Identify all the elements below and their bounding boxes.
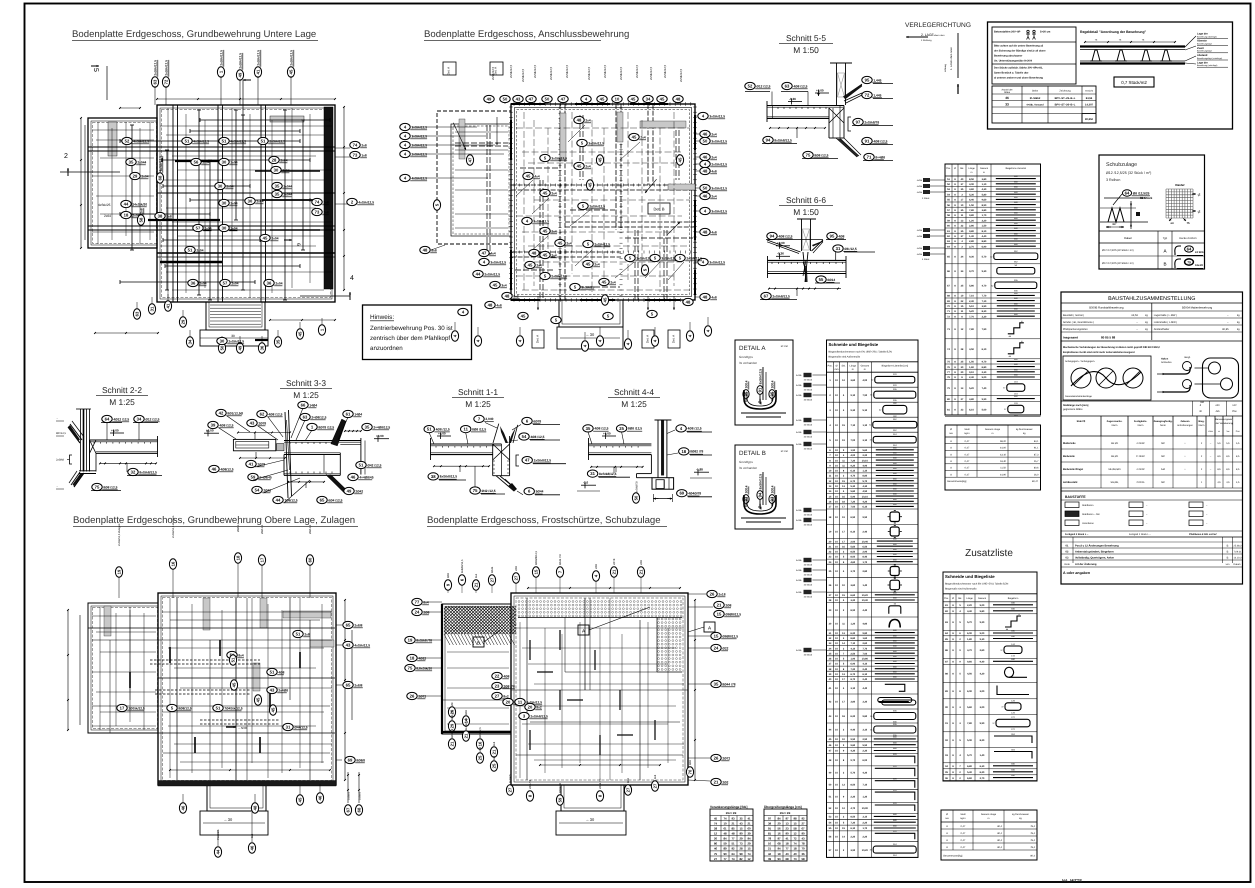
plan2 extra interior detail xyxy=(523,112,525,292)
svg-text:35: 35 xyxy=(365,425,370,430)
svg-text:8xStk/12,5: 8xStk/12,5 xyxy=(758,474,762,490)
svg-text:6,00: 6,00 xyxy=(862,759,867,762)
svg-text:7,10: 7,10 xyxy=(850,642,855,645)
svg-text:3x vorhanden: 3x vorhanden xyxy=(739,361,758,365)
svg-text:≥4: ≥4 xyxy=(1170,221,1174,225)
svg-text:4,50: 4,50 xyxy=(969,348,974,351)
svg-text:Datum: Datum xyxy=(1234,563,1241,566)
svg-text:94: 94 xyxy=(747,837,751,841)
svg-text:30: 30 xyxy=(248,199,253,204)
svg-text:1,445: 1,445 xyxy=(873,93,881,97)
svg-text:15: 15 xyxy=(747,847,751,851)
svg-text:4x8: 4x8 xyxy=(496,303,502,307)
svg-text:9,60: 9,60 xyxy=(967,661,972,664)
plan4 region divider lines xyxy=(518,617,682,619)
svg-text:5,70: 5,70 xyxy=(967,754,972,757)
svg-text:63: 63 xyxy=(303,415,308,420)
svg-text:2xStk/12,5: 2xStk/12,5 xyxy=(238,53,242,69)
svg-text:Bieg-: Bieg- xyxy=(1199,420,1205,423)
svg-text:3,80: 3,80 xyxy=(850,701,855,704)
svg-text:44: 44 xyxy=(216,849,221,854)
svg-text:21: 21 xyxy=(612,569,617,574)
svg-text:8xStk/5: 8xStk/5 xyxy=(509,774,512,783)
svg-text:Stk.: Stk. xyxy=(841,364,845,367)
svg-text:Länge: Länge xyxy=(849,364,856,367)
svg-text:29: 29 xyxy=(747,842,751,846)
svg-text:94: 94 xyxy=(758,492,763,497)
svg-text:Ø: Ø xyxy=(954,167,956,170)
svg-text:45: 45 xyxy=(271,707,276,712)
svg-text:8Ø8 /12,5: 8Ø8 /12,5 xyxy=(628,427,642,431)
svg-text:41: 41 xyxy=(785,837,789,841)
svg-text:Übergreifungslänge [cm]: Übergreifungslänge [cm] xyxy=(764,805,802,809)
svg-text:10 Stück: 10 Stück xyxy=(804,399,813,402)
svg-text:27: 27 xyxy=(508,787,513,792)
schnitt55 bubble 97 bracket xyxy=(853,118,880,125)
schnitt33 deep block below xyxy=(283,455,285,476)
plan3 left wing outline xyxy=(88,603,158,733)
svg-text:15: 15 xyxy=(717,612,722,617)
svg-text:2,30: 2,30 xyxy=(969,300,974,303)
svg-text:6,20: 6,20 xyxy=(850,632,855,635)
svg-text:2x8: 2x8 xyxy=(304,632,310,636)
svg-text:8Ø84/78: 8Ø84/78 xyxy=(559,782,562,793)
svg-text:Stahl ①: Stahl ① xyxy=(1077,420,1087,423)
svg-text:3,30: 3,30 xyxy=(982,315,987,318)
svg-text:2×4Ø8/12,5: 2×4Ø8/12,5 xyxy=(373,425,390,429)
svg-text:74: 74 xyxy=(747,852,751,856)
plan1 interior wall horizontal D xyxy=(157,252,335,254)
svg-text:21: 21 xyxy=(492,749,497,754)
svg-text:48: 48 xyxy=(686,300,691,305)
svg-text:46: 46 xyxy=(1005,96,1009,100)
svg-text:65: 65 xyxy=(346,683,351,688)
svg-text:Grundtyps: Grundtyps xyxy=(739,460,753,464)
svg-text:7,40: 7,40 xyxy=(982,387,987,390)
svg-text:25: 25 xyxy=(492,763,497,768)
svg-text:44: 44 xyxy=(124,202,129,207)
svg-text:4xStk/12,5: 4xStk/12,5 xyxy=(193,139,209,143)
schnitt55 bubble 71 xyxy=(864,153,885,160)
plan2 Det.B box xyxy=(648,203,670,214)
schnitt55 column above slab xyxy=(830,62,852,64)
detail B drawing xyxy=(743,485,749,503)
svg-text:Schnitt 6-6: Schnitt 6-6 xyxy=(786,195,826,205)
svg-text:25,7: 25,7 xyxy=(1034,460,1039,463)
svg-text:45: 45 xyxy=(603,297,608,302)
svg-text:4xStk/12,5: 4xStk/12,5 xyxy=(358,200,374,204)
svg-text:Stahlbeton – b/8: Stahlbeton – b/8 xyxy=(1082,513,1100,516)
detail A drawing xyxy=(743,380,749,398)
svg-text:m: m xyxy=(992,432,994,435)
svg-text:2x04: 2x04 xyxy=(231,281,238,285)
svg-text:4Ø8 /12,5: 4Ø8 /12,5 xyxy=(594,427,608,431)
svg-text:46: 46 xyxy=(714,847,718,851)
svg-text:DETAIL A: DETAIL A xyxy=(739,345,766,352)
plan3 short stubs xyxy=(169,647,171,663)
plan2 top bubble row xyxy=(484,95,494,102)
svg-text:18: 18 xyxy=(785,842,789,846)
svg-text:60: 60 xyxy=(747,827,751,831)
svg-text:M 1:50: M 1:50 xyxy=(781,345,789,348)
svg-text:10 Stück: 10 Stück xyxy=(804,564,813,567)
svg-text:8Ø8: 8Ø8 xyxy=(689,760,692,765)
svg-text:29: 29 xyxy=(133,174,138,179)
svg-text:1,50: 1,50 xyxy=(969,361,974,364)
svg-text:2. LAGE: 2. LAGE xyxy=(921,33,935,37)
svg-text:43: 43 xyxy=(801,837,805,841)
plan2 bottom protrusion xyxy=(559,300,623,327)
svg-text:80,6: 80,6 xyxy=(1034,467,1039,470)
svg-text:0,47: 0,47 xyxy=(965,440,970,443)
svg-text:⊄: ⊄ xyxy=(1197,192,1200,197)
svg-text:9,30: 9,30 xyxy=(982,270,987,273)
svg-text:Biegf.: Biegf. xyxy=(1185,356,1191,359)
svg-text:51: 51 xyxy=(216,706,221,711)
svg-text:24: 24 xyxy=(714,646,719,651)
svg-text:80,4: 80,4 xyxy=(997,832,1002,835)
plan2 bottom rotated labels xyxy=(451,331,458,341)
svg-text:2,30: 2,30 xyxy=(850,795,855,798)
svg-text:2xStk/5: 2xStk/5 xyxy=(348,791,351,800)
svg-text:0,47: 0,47 xyxy=(965,473,970,476)
svg-text:82: 82 xyxy=(739,857,743,861)
svg-text:2x4: 2x4 xyxy=(594,262,600,266)
svg-text:0,7 Stück/m2: 0,7 Stück/m2 xyxy=(1121,80,1147,85)
svg-text:B: B xyxy=(1227,544,1229,547)
plan1 dimension line left inner xyxy=(84,125,86,240)
svg-text:Ø12 /12,5/25 (32 Stück / m²): Ø12 /12,5/25 (32 Stück / m²) xyxy=(1102,262,1134,265)
svg-text:C 2b/4P: C 2b/4P xyxy=(1136,455,1145,458)
svg-text:2,20: 2,20 xyxy=(862,836,867,839)
svg-text:Ände: Ände xyxy=(1064,563,1070,566)
svg-text:27: 27 xyxy=(495,694,500,699)
svg-text:±0,00: ±0,00 xyxy=(206,429,214,433)
svg-text:73: 73 xyxy=(793,857,797,861)
plan2 wall double lines with anchor ticks xyxy=(559,104,561,300)
svg-text:8x4: 8x4 xyxy=(475,573,478,578)
svg-text:≥12: ≥12 xyxy=(1232,404,1237,407)
plan2 left bubble column xyxy=(400,123,427,130)
svg-text:≥w: ≥w xyxy=(1227,430,1230,433)
plan1 interior wall vertical B xyxy=(217,105,219,302)
svg-text:Zentrierbewehrung Pos. 30 ist: Zentrierbewehrung Pos. 30 ist xyxy=(370,325,453,332)
svg-text:4 2b/4P: 4 2b/4P xyxy=(1136,442,1145,445)
svg-text:50: 50 xyxy=(703,186,708,191)
svg-text:51: 51 xyxy=(185,139,190,144)
svg-text:4,70: 4,70 xyxy=(982,285,987,288)
svg-text:65: 65 xyxy=(320,498,325,503)
schnitt11 right column box xyxy=(492,444,494,476)
svg-text:20: 20 xyxy=(506,700,511,705)
svg-text:2,40: 2,40 xyxy=(862,531,867,534)
svg-text:4xStk: 4xStk xyxy=(796,569,802,572)
svg-text:8,00: 8,00 xyxy=(850,556,855,559)
svg-text:7,70: 7,70 xyxy=(982,295,987,298)
svg-text:2xStk/12,5: 2xStk/12,5 xyxy=(635,64,639,78)
plan4 crosshatch lower strip xyxy=(444,634,515,645)
schnitt22 bottom-left hatch xyxy=(71,472,80,485)
svg-text:2x4: 2x4 xyxy=(610,280,616,284)
schnitt33 left vertical hatch bars xyxy=(285,412,288,498)
svg-text:45: 45 xyxy=(521,314,526,319)
svg-text:8xStk8/78: 8xStk8/78 xyxy=(636,481,639,493)
svg-text:45: 45 xyxy=(632,135,637,140)
svg-text:60: 60 xyxy=(308,557,313,562)
svg-text:51: 51 xyxy=(270,670,275,675)
svg-text:Pos.8 u 12 Änderungen Bewehrun: Pos.8 u 12 Änderungen Bewehrung xyxy=(1075,543,1119,547)
svg-text:Zweit: Zweit xyxy=(1197,47,1204,50)
plan2 inner rotated bubbles xyxy=(466,155,473,165)
svg-text:Bodenplatte Erdgeschoss, Frost: Bodenplatte Erdgeschoss, Frostschürtze, … xyxy=(427,515,661,526)
svg-text:3,60: 3,60 xyxy=(969,188,974,191)
plan4 mid-left bubbles xyxy=(492,672,510,679)
svg-text:2x04: 2x04 xyxy=(204,226,211,230)
svg-text:8x8Ø8/12,5: 8x8Ø8/12,5 xyxy=(461,559,464,573)
svg-text:1,90: 1,90 xyxy=(850,449,855,452)
svg-text:74: 74 xyxy=(793,842,797,846)
svg-text:8,50: 8,50 xyxy=(850,551,855,554)
plan1 gray strip left wing xyxy=(108,122,117,156)
svg-text:4,40: 4,40 xyxy=(982,235,987,238)
svg-text:6,60: 6,60 xyxy=(850,594,855,597)
svg-text:2x4: 2x4 xyxy=(711,132,717,136)
svg-text:4Ø8 /12,5: 4Ø8 /12,5 xyxy=(268,412,282,416)
svg-text:Bitte achten auf die untere Be: Bitte achten auf die untere Bewehrung a2 xyxy=(994,45,1044,48)
svg-text:8x4: 8x4 xyxy=(251,833,254,838)
svg-text:51: 51 xyxy=(231,657,236,662)
plan4 right bubble column xyxy=(707,590,726,597)
svg-text:68: 68 xyxy=(357,807,362,812)
svg-text:72: 72 xyxy=(164,79,169,84)
svg-text:6,10: 6,10 xyxy=(969,408,974,411)
svg-text:Ø12 / Ø8: Ø12 / Ø8 xyxy=(780,812,791,815)
schnitt22 left bracket xyxy=(70,455,73,464)
svg-text:5,90: 5,90 xyxy=(980,722,985,725)
svg-text:26: 26 xyxy=(410,694,415,699)
svg-text:7,10: 7,10 xyxy=(969,295,974,298)
svg-text:2Ø72: 2Ø72 xyxy=(418,694,426,698)
svg-text:52: 52 xyxy=(748,84,753,89)
svg-text:2Ø8: 2Ø8 xyxy=(515,566,518,571)
plan1 thick black wall bar right xyxy=(324,107,333,289)
svg-text:Ø8Ø8/12,5: Ø8Ø8/12,5 xyxy=(725,612,741,616)
svg-text:34: 34 xyxy=(646,97,651,102)
plan3 right bottom dim pair xyxy=(347,772,349,803)
svg-text:80,4: 80,4 xyxy=(997,825,1002,828)
svg-text:2x4: 2x4 xyxy=(566,241,572,245)
svg-text:24 St/12: 24 St/12 xyxy=(1195,251,1205,254)
svg-text:10,20: 10,20 xyxy=(862,849,869,852)
svg-text:5,10: 5,10 xyxy=(969,305,974,308)
svg-text:16: 16 xyxy=(777,832,781,836)
svg-text:3 Richtung: 3 Richtung xyxy=(921,39,932,42)
svg-text:1,40: 1,40 xyxy=(980,754,985,757)
svg-text:7.09.21: 7.09.21 xyxy=(1234,550,1243,553)
svg-text:Lage der: Lage der xyxy=(1197,33,1208,36)
svg-text:8Ø8: 8Ø8 xyxy=(465,710,468,715)
svg-text:6,10: 6,10 xyxy=(862,506,867,509)
plan1 right outside bubbles xyxy=(312,198,329,205)
svg-text:8x2: 8x2 xyxy=(513,294,519,298)
plan4 bottom right corner bubble xyxy=(711,778,729,785)
svg-text:48: 48 xyxy=(423,248,428,253)
svg-text:0,47: 0,47 xyxy=(961,832,966,835)
svg-text:8Ø8 /78: 8Ø8 /78 xyxy=(451,728,454,738)
svg-text:kg/m: kg/m xyxy=(961,817,966,820)
svg-text:31: 31 xyxy=(150,306,155,311)
svg-text:10,10: 10,10 xyxy=(862,495,869,498)
svg-text:3x vorhanden: 3x vorhanden xyxy=(739,466,758,470)
svg-text:7,90: 7,90 xyxy=(862,394,867,397)
svg-text:M 1:25: M 1:25 xyxy=(293,390,319,400)
plan1 dimension line right xyxy=(343,107,345,290)
svg-text:48: 48 xyxy=(703,230,708,235)
svg-text:20: 20 xyxy=(528,705,533,710)
svg-text:oben ruten: oben ruten xyxy=(934,34,945,37)
middle table left callouts xyxy=(923,178,930,182)
svg-text:7,10: 7,10 xyxy=(982,300,987,303)
svg-text:Verankerungslänge [Stk]: Verankerungslänge [Stk] xyxy=(710,805,747,809)
svg-text:8Ø8: 8Ø8 xyxy=(447,573,450,578)
svg-text:8xStk/12,5: 8xStk/12,5 xyxy=(465,717,468,730)
svg-text:Norm: Norm xyxy=(1112,424,1118,427)
plan4 bottom-left bubble cluster xyxy=(448,707,455,717)
schnitt11 upper-right dark wedges xyxy=(500,426,508,443)
svg-text:6,20: 6,20 xyxy=(980,771,985,774)
svg-text:4x4: 4x4 xyxy=(534,174,540,178)
svg-text:9,90: 9,90 xyxy=(982,398,987,401)
svg-text:14.10.21: 14.10.21 xyxy=(1234,556,1244,559)
svg-text:5,00: 5,00 xyxy=(967,739,972,742)
svg-text:3xStk/12,5: 3xStk/12,5 xyxy=(490,260,506,264)
svg-text:2x8/8: 2x8/8 xyxy=(354,623,362,627)
svg-text:Bewehrung abschauner: Bewehrung abschauner xyxy=(994,55,1022,58)
plan2 Det.A boxes bottom xyxy=(532,330,544,348)
svg-text:41: 41 xyxy=(249,462,254,467)
svg-text:3,60: 3,60 xyxy=(850,379,855,382)
svg-text:Zulassn: Zulassn xyxy=(1180,420,1190,423)
svg-text:2xStk/12,5: 2xStk/12,5 xyxy=(603,64,607,78)
svg-text:7,80: 7,80 xyxy=(969,209,974,212)
svg-text:6,90: 6,90 xyxy=(982,245,987,248)
plan2 interior rebar stubs xyxy=(486,125,488,255)
svg-text:10: 10 xyxy=(615,97,620,102)
svg-text:...: ... xyxy=(56,485,58,488)
svg-text:8,50: 8,50 xyxy=(850,783,855,786)
svg-text:Ø8 /12,5/25: Ø8 /12,5/25 xyxy=(1133,191,1150,195)
svg-text:3xStk/12,5: 3xStk/12,5 xyxy=(711,139,727,143)
svg-text:46: 46 xyxy=(181,805,186,810)
svg-text:28: 28 xyxy=(714,827,718,831)
baustahl revision table xyxy=(1061,536,1243,538)
svg-text:30: 30 xyxy=(218,184,223,189)
svg-text:51: 51 xyxy=(427,427,432,432)
svg-text:5,20: 5,20 xyxy=(969,387,974,390)
svg-text:3xStk/12,5: 3xStk/12,5 xyxy=(711,186,727,190)
svg-text:Norm: Norm xyxy=(1199,424,1205,427)
svg-text:3xStk/12,5: 3xStk/12,5 xyxy=(551,156,567,160)
svg-text:7,70: 7,70 xyxy=(969,315,974,318)
svg-text:25: 25 xyxy=(478,755,483,760)
svg-text:10,40: 10,40 xyxy=(862,540,869,543)
svg-text:4,40: 4,40 xyxy=(862,609,867,612)
svg-text:4xb: 4xb xyxy=(1215,410,1220,413)
svg-text:2x04: 2x04 xyxy=(280,158,287,162)
svg-text:M 1:50: M 1:50 xyxy=(781,450,789,453)
svg-text:8x2: 8x2 xyxy=(536,705,542,709)
svg-text:Bewehrungslage (unterlage): Bewehrungslage (unterlage) xyxy=(1197,57,1222,60)
svg-text:77: 77 xyxy=(785,847,789,851)
svg-text:4xStk: 4xStk xyxy=(796,394,802,397)
svg-text:4xStk: 4xStk xyxy=(796,591,802,594)
svg-text:mm: mm xyxy=(949,432,953,435)
svg-text:Ø42 /12,5: Ø42 /12,5 xyxy=(482,489,496,493)
svg-text:+0,00: +0,00 xyxy=(603,431,611,435)
plan3 bottom rotated bubbles2 xyxy=(214,847,221,857)
svg-text:der Sicherung der Bündige sind: der Sicherung der Bündige sind je all ob… xyxy=(994,50,1046,53)
svg-text:3xStk/12,5: 3xStk/12,5 xyxy=(588,141,604,145)
svg-text:8,90: 8,90 xyxy=(982,204,987,207)
svg-text:63: 63 xyxy=(785,84,790,89)
svg-text:9,40: 9,40 xyxy=(980,661,985,664)
svg-text:1,70: 1,70 xyxy=(862,827,867,830)
svg-text:2xStk/12,5: 2xStk/12,5 xyxy=(589,204,605,208)
plan1 left outside bubbles xyxy=(121,200,148,207)
svg-text:Pos.: Pos. xyxy=(828,364,833,367)
plan1 interior wall vertical A xyxy=(172,105,174,302)
svg-text:80,4: 80,4 xyxy=(997,846,1002,849)
svg-text:2xStk/12,5: 2xStk/12,5 xyxy=(711,162,727,166)
svg-text:27: 27 xyxy=(514,575,519,580)
svg-text:80 85 5 88: 80 85 5 88 xyxy=(1101,336,1116,340)
svg-text:5,00: 5,00 xyxy=(982,408,987,411)
svg-text:Det. A: Det. A xyxy=(536,335,540,343)
svg-text:4xStk: 4xStk xyxy=(796,374,802,377)
svg-text:5: 5 xyxy=(92,68,99,72)
svg-text:70: 70 xyxy=(688,769,693,774)
svg-text:8Ø8Ø8/12,5: 8Ø8Ø8/12,5 xyxy=(535,550,538,565)
svg-text:Biegemaße sind Außenmaße: Biegemaße sind Außenmaße xyxy=(829,356,861,359)
svg-text:7Ø8/12,5: 7Ø8/12,5 xyxy=(284,498,297,502)
svg-text:92: 92 xyxy=(801,816,805,820)
svg-text:Bemessungswert: Bemessungswert xyxy=(1215,418,1233,421)
table: Schneide und Biegeliste (main) xyxy=(827,340,919,857)
svg-text:69: 69 xyxy=(348,758,353,763)
svg-text:42: 42 xyxy=(219,411,224,416)
svg-text:Ø12 / Ø8: Ø12 / Ø8 xyxy=(726,812,737,815)
schnitt55 bubble 63 xyxy=(782,82,808,89)
svg-text:80,4: 80,4 xyxy=(1030,855,1035,858)
schnitt55 slab band xyxy=(767,105,844,107)
schnitt33 left box xyxy=(233,439,275,450)
svg-text:2,30: 2,30 xyxy=(862,750,867,753)
svg-text:Ankerstab geändert, Biegeform: Ankerstab geändert, Biegeform xyxy=(1075,550,1114,553)
plan1 plate outline main xyxy=(157,105,335,302)
svg-text:1. LAGE oben ruten: 1. LAGE oben ruten xyxy=(950,47,953,70)
svg-text:4,90: 4,90 xyxy=(862,464,867,467)
svg-text:8,90: 8,90 xyxy=(850,609,855,612)
plan3 right bubbles xyxy=(343,621,363,628)
svg-text:10: 10 xyxy=(768,842,772,846)
svg-text:8Ø78 /12,5: 8Ø78 /12,5 xyxy=(318,425,334,429)
svg-text:M 1:50: M 1:50 xyxy=(793,207,819,217)
svg-text:9,80: 9,80 xyxy=(862,632,867,635)
svg-text:47: 47 xyxy=(468,157,473,162)
svg-text:Pos.: Pos. xyxy=(946,167,951,170)
schnitt33 main slab band xyxy=(284,440,361,442)
svg-text:Stk.: Stk. xyxy=(958,597,962,600)
